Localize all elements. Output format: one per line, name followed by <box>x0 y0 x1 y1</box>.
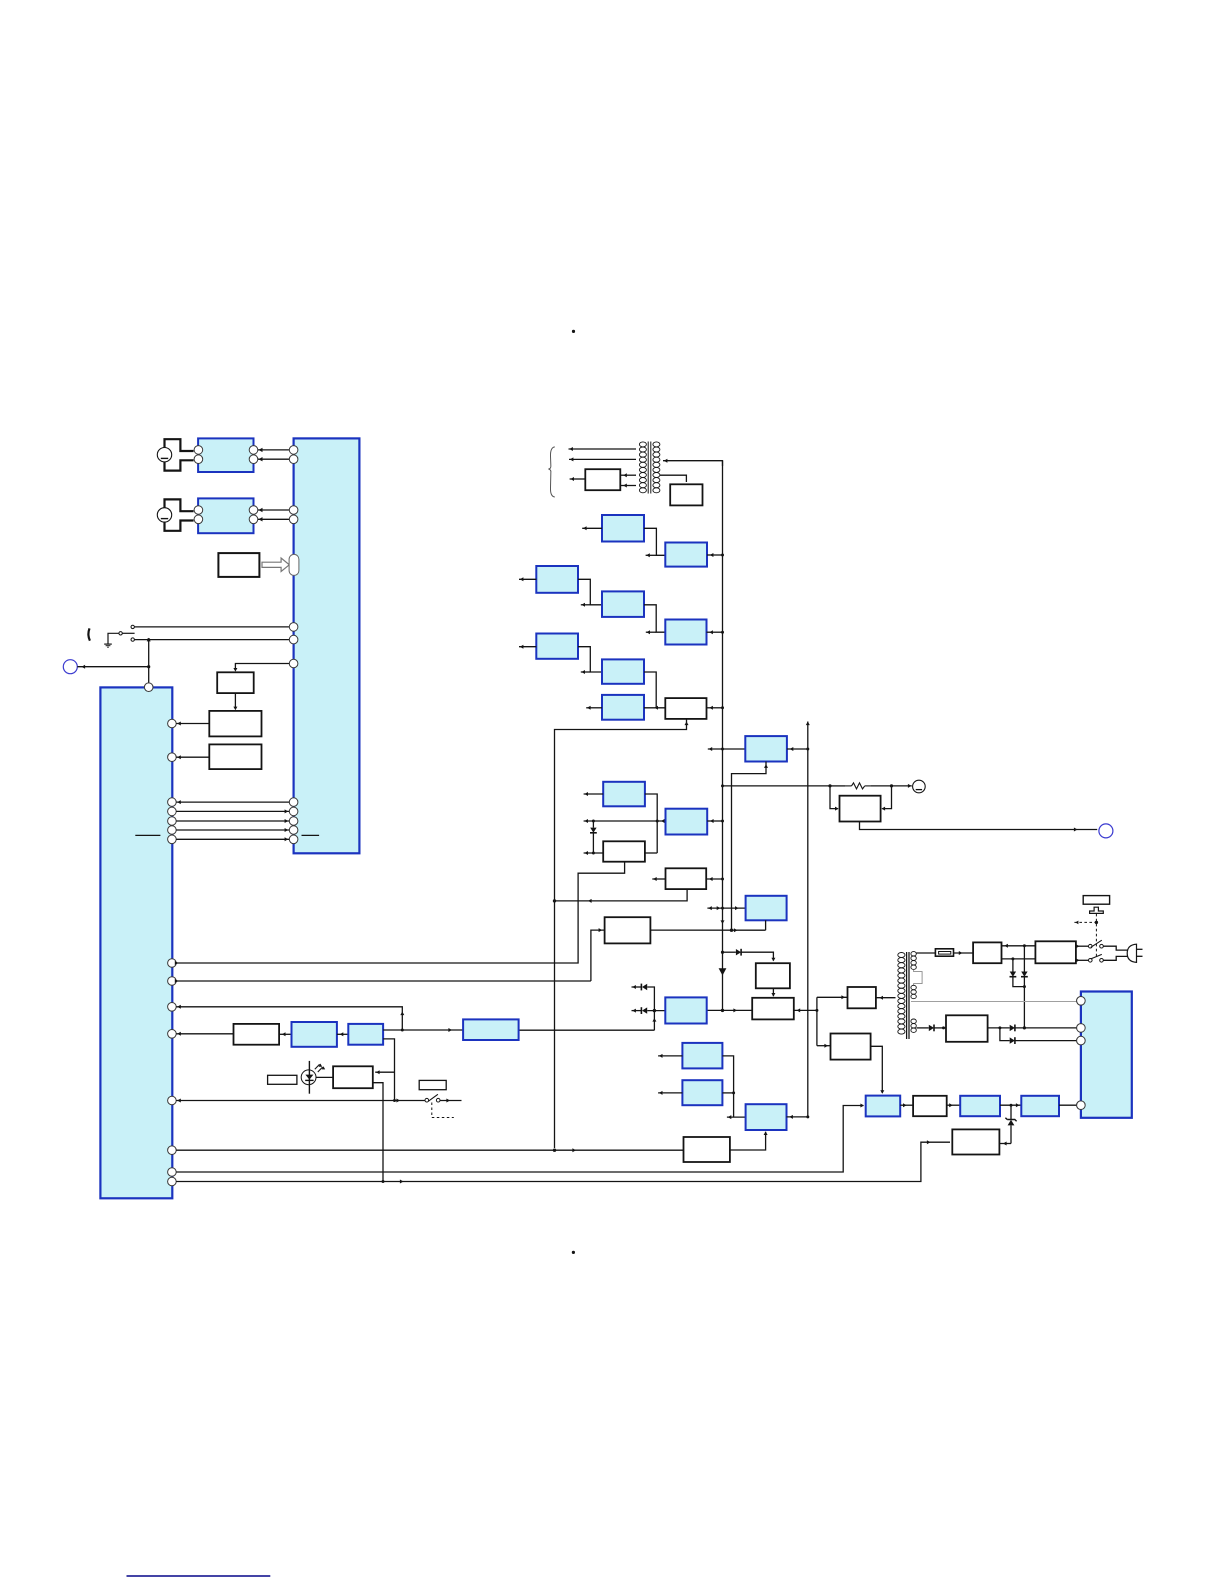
footer link line <box>127 1575 271 1577</box>
wire D2 to node <box>647 987 656 1030</box>
wire N bottom <box>553 889 687 903</box>
resistor R1 <box>845 783 871 789</box>
pin X2-right-2 <box>249 515 258 524</box>
box M white <box>603 841 645 861</box>
wire A3 out-left <box>519 577 536 581</box>
pin U2-10 <box>168 1177 177 1186</box>
pin U2-bus-3 <box>168 817 177 826</box>
wire A9 bottom feedback <box>555 719 689 1148</box>
wire Y11 to Z12 <box>871 1046 885 1094</box>
box B2 <box>217 672 254 693</box>
wire J1 to node <box>77 665 150 669</box>
wire AH to AJ <box>383 1028 463 1032</box>
pin U1-4 <box>289 515 298 524</box>
pin U2-top <box>144 683 153 692</box>
wire T1 to B5 line1 <box>620 473 636 477</box>
pin U3-3 overlay <box>1077 1036 1086 1045</box>
wire AG to AF <box>279 1032 291 1036</box>
pin U1-bus-4 <box>289 826 298 835</box>
box L cyan <box>666 809 708 835</box>
wire LED to AI <box>316 1076 333 1078</box>
pin U1-bus-1 <box>289 798 298 807</box>
wire U1 to B2 <box>233 664 289 672</box>
wire V8 to W9 <box>771 988 775 996</box>
diode D3 <box>641 1007 647 1014</box>
wire A7 to node H <box>644 672 656 708</box>
box AC cyan <box>682 1080 722 1105</box>
wire X1 to U1 line 1 <box>258 448 290 452</box>
wire pin4 to AF <box>176 1032 233 1036</box>
transformer T2 primary seg1 <box>911 952 916 970</box>
wire SW0 to ground <box>108 633 119 644</box>
box AH cyan <box>348 1024 383 1045</box>
pin X2-right-1 <box>249 506 258 515</box>
box A3 cyan <box>536 566 578 593</box>
resistor block RL <box>268 1075 297 1084</box>
gray wire T2 to U3 <box>911 1001 1077 1003</box>
registration dot top <box>572 330 575 333</box>
bus wire 5 <box>176 837 289 841</box>
wire into M <box>584 851 604 855</box>
box AF white <box>234 1024 280 1045</box>
box A8 cyan <box>602 695 644 720</box>
wire AA to W9 <box>707 1008 753 1012</box>
pin X1-left-2 <box>194 455 203 464</box>
pin X1-left-1 <box>194 446 203 455</box>
wire B5 out-left <box>570 477 586 481</box>
pin U1-bus-2 <box>289 807 298 816</box>
box Y11 white <box>831 1034 871 1060</box>
pin U3-2 overlay <box>1077 1024 1086 1033</box>
wire trunk to R row <box>721 784 832 787</box>
wire B4 to U2 <box>176 755 209 759</box>
box A1 cyan <box>602 515 644 542</box>
wire to X10 <box>817 995 848 999</box>
pin U1-5 <box>289 623 298 632</box>
pin U1-2 <box>289 455 298 464</box>
zener ZD1 <box>1005 1105 1016 1143</box>
wire lower diode row <box>1000 1028 1010 1041</box>
antenna stroke <box>88 628 90 640</box>
wire into L <box>584 819 666 823</box>
label box B1 <box>218 553 259 577</box>
trunk A mid arrow <box>721 920 725 924</box>
key label box <box>1083 896 1109 905</box>
pin U2-bus-1 <box>168 798 177 807</box>
box B3 <box>209 711 261 737</box>
wire A4 to A5 <box>644 605 665 634</box>
pin U3-3 <box>1077 1036 1086 1045</box>
pin U1-bus-3 <box>289 817 298 826</box>
switch SW3 <box>425 1094 440 1102</box>
wire B2 to B3 <box>233 693 237 710</box>
wire J5 to trunkC <box>787 747 809 751</box>
box T7 white <box>605 917 651 943</box>
wire fuse to R14 <box>954 951 974 955</box>
box W9 white <box>752 998 794 1020</box>
box B5 <box>585 469 620 490</box>
box A5 cyan <box>665 620 706 645</box>
wire AH to AG <box>337 1032 348 1036</box>
wire node down to U2 <box>148 640 150 683</box>
switch contact C2 <box>131 638 134 641</box>
box R14 white <box>973 942 1001 963</box>
wire L to trunk <box>707 819 724 823</box>
pin U2-6 <box>168 1030 177 1039</box>
wire R14 to Q15 top <box>1002 944 1036 948</box>
box A9 white <box>665 698 706 719</box>
wire T1 to B6 <box>660 475 686 482</box>
mains switch SW1 <box>1076 940 1103 948</box>
switch contact C1 <box>131 625 134 628</box>
box Q15 white <box>1035 941 1076 963</box>
pin U3-1 <box>1077 997 1086 1006</box>
box Z13 cyan <box>866 1096 901 1117</box>
diode D6 <box>929 1025 934 1032</box>
block arrow into U1 <box>262 558 289 572</box>
bus wire 2 <box>176 809 289 813</box>
wire T1 to B5 line2 <box>620 484 636 488</box>
wire AM to U3 <box>1059 1104 1077 1106</box>
diode D4 <box>1010 959 1025 987</box>
wire A8 to A9 <box>644 706 665 710</box>
transformer T1 core <box>648 442 651 494</box>
wire T2 to fuse <box>916 952 935 954</box>
wire AH lower stub <box>375 1039 394 1101</box>
box J5 cyan <box>745 736 787 761</box>
box A2 cyan <box>665 543 707 567</box>
pin U3-2 <box>1077 1024 1086 1033</box>
trunk A wire <box>722 461 724 1011</box>
diode D8 <box>1010 1037 1015 1044</box>
plug symbol for S1 <box>165 439 194 470</box>
wire N to trunk <box>706 877 724 881</box>
wire J5 bottom to trunkB <box>732 762 769 931</box>
wire AJ to node <box>519 1029 655 1031</box>
transformer T2 core <box>907 952 909 1039</box>
wire ZD1 to AN <box>999 1142 1011 1146</box>
wire A9 to trunk <box>707 706 725 710</box>
diode D5 <box>1021 946 1028 1028</box>
wire Z13 to AK <box>900 1103 913 1107</box>
wire into J5 left <box>708 747 746 751</box>
diode D7 <box>1010 1025 1015 1032</box>
wire AI lower out <box>373 1083 383 1182</box>
trunk C wire <box>806 722 810 1117</box>
wire pin2 long <box>175 979 591 983</box>
box B4 <box>209 744 261 769</box>
wire trunk to D1 <box>721 951 736 954</box>
box K cyan <box>603 782 645 807</box>
test point TP1 <box>913 780 926 793</box>
wire R row cont <box>830 784 912 788</box>
plug symbol for S2 <box>165 499 194 530</box>
AC plug P1 <box>1127 944 1142 962</box>
vertical to X10 <box>816 997 818 1045</box>
fuse F1 <box>935 949 953 956</box>
pin X2-left-1 <box>194 506 203 515</box>
wire C1 to U1 <box>135 626 290 628</box>
wire A1 to A2 <box>644 528 665 557</box>
pin U2-7 <box>168 1096 177 1105</box>
box B6 <box>670 484 702 505</box>
wire pin2 to T7 <box>591 928 605 981</box>
big block U1 <box>294 438 360 853</box>
pin U2-9 <box>168 1168 177 1177</box>
big block U3 <box>1081 992 1132 1118</box>
wire A6 to A7 <box>578 647 602 674</box>
wire P1 to J2 <box>860 822 1098 832</box>
box AM cyan <box>1021 1096 1059 1116</box>
wire M out <box>645 852 657 854</box>
box A7 cyan <box>602 659 644 683</box>
box AJ cyan <box>463 1019 518 1040</box>
box S16 white <box>946 1015 988 1042</box>
wire R14 to Q15 bot <box>1002 957 1036 960</box>
wire pin3 <box>176 1005 404 1030</box>
connector J1 <box>63 660 77 674</box>
pin U3-4 overlay <box>1077 1101 1086 1110</box>
wire lower diode stub <box>632 1009 642 1013</box>
mains switch SW2 <box>1076 954 1103 962</box>
bus wire 1 <box>176 800 289 804</box>
wire T1 to trunk <box>663 459 723 466</box>
diode D9 <box>590 821 597 853</box>
key symbol <box>1090 907 1104 913</box>
AC source S1 <box>157 448 171 462</box>
wire A3 to A4 <box>578 579 602 607</box>
box AI white <box>333 1066 373 1088</box>
box N white <box>666 868 707 889</box>
dashed link SW3 <box>432 1103 454 1118</box>
pin U2-1 <box>168 719 177 728</box>
wire X2 to U1 line 2 <box>258 517 290 521</box>
transformer T2 primary tap bracket <box>914 970 923 986</box>
box A4 cyan <box>602 591 644 617</box>
diode D1 <box>736 949 741 956</box>
pin U2-4 <box>168 977 177 986</box>
ground <box>104 644 112 647</box>
diode D2 <box>641 984 647 991</box>
box V8 white <box>756 963 790 988</box>
box AL cyan <box>960 1096 1000 1116</box>
wire to Y11 <box>817 1044 831 1048</box>
wire AC in <box>658 1091 682 1095</box>
wire pin5 <box>176 1099 425 1103</box>
transformer T2 primary seg3 <box>911 1019 916 1032</box>
pin U3-1 overlay <box>1077 997 1086 1006</box>
pin U1-6 <box>289 635 298 644</box>
label box SW3 <box>419 1080 446 1089</box>
box AK white <box>913 1096 947 1116</box>
box AD cyan <box>746 1104 787 1130</box>
wire W9 right <box>794 1008 819 1012</box>
pin U2-bus-2 <box>168 807 177 816</box>
wire AD to trunkC <box>787 1115 810 1119</box>
trunk A flow arrow <box>719 968 727 975</box>
wire T2 to D6 <box>917 1027 929 1029</box>
wire pin1 long <box>175 862 625 965</box>
wire AE to AD <box>730 1131 768 1150</box>
wire D8 to U3 <box>1015 1040 1077 1042</box>
switch SW0 blade <box>122 632 134 634</box>
wire A1 out-left <box>582 526 602 530</box>
AC source S2 <box>157 508 171 522</box>
registration dot bottom <box>572 1251 575 1254</box>
box AA cyan <box>665 997 706 1023</box>
pin X1-right-2 <box>249 455 258 464</box>
big block U2 <box>100 687 172 1198</box>
wire K out <box>645 794 659 853</box>
pin X2-left-2 <box>194 515 203 524</box>
wire X2 to U1 line 1 <box>258 508 290 512</box>
box AG cyan <box>292 1022 337 1047</box>
box AN white <box>952 1129 999 1154</box>
input block X1 <box>198 438 253 472</box>
wire T1 sec line2 <box>569 457 636 461</box>
wire A2 to trunk <box>707 553 724 557</box>
tick mark right <box>302 834 320 836</box>
pin U3-4 <box>1077 1101 1086 1110</box>
wire into AD <box>727 1115 746 1119</box>
bus wire 4 <box>176 828 289 832</box>
pin U2-bus-5 <box>168 835 177 844</box>
wire C2 to U1 <box>135 638 290 642</box>
wire upper diode stub <box>632 985 642 989</box>
brace <box>548 447 554 497</box>
wire D7 to U3 <box>1015 1026 1077 1029</box>
wire D3 to AA <box>647 1010 665 1012</box>
wire pin8 <box>176 1140 950 1183</box>
pill connector on U1 edge <box>289 554 299 575</box>
wire AB AC merge <box>722 1056 735 1117</box>
wire T1 sec line1 <box>569 447 637 451</box>
wire X10 to T2 <box>876 996 896 1000</box>
wire pin7 <box>176 1104 864 1173</box>
pin U1-7 <box>289 659 298 668</box>
transformer T2 secondary coil <box>898 953 905 1035</box>
wire K in <box>584 792 604 796</box>
box AB cyan <box>682 1043 722 1069</box>
pin U1-3 <box>289 506 298 515</box>
wire AB in <box>658 1054 682 1058</box>
pin U2-8 <box>168 1146 177 1155</box>
wire S16 out <box>988 1026 1010 1029</box>
pin U2-3 <box>168 959 177 968</box>
wire AL to AM <box>1000 1103 1021 1107</box>
box A6 cyan <box>536 634 578 659</box>
wire AK to AL <box>947 1103 961 1107</box>
wire SW2 to plug <box>1103 956 1128 960</box>
box X10 white <box>848 987 876 1008</box>
wire T7 to O6 <box>650 928 765 932</box>
switch link dashed <box>1074 914 1098 957</box>
transformer T1 primary coil <box>639 442 646 493</box>
pin U2-5 <box>168 1003 177 1012</box>
wire D1 to V8 <box>741 952 775 961</box>
pin U2-2 <box>168 753 177 762</box>
connector J2 <box>1099 824 1113 838</box>
wire into O6 left <box>707 906 745 910</box>
LED DL1 <box>301 1061 325 1094</box>
input block X2 <box>198 498 253 533</box>
transformer T2 primary seg2 <box>911 985 916 998</box>
bus wire 3 <box>176 819 289 823</box>
wire pin6 <box>176 1148 683 1152</box>
box AE white <box>684 1137 730 1162</box>
wire after SW3 <box>440 1099 462 1103</box>
wire A6 out-left <box>519 645 536 649</box>
pin U1-1 <box>289 446 298 455</box>
box O6 cyan <box>746 896 787 921</box>
wire O6 bottom <box>765 920 767 930</box>
pin U2-bus-4 <box>168 826 177 835</box>
wire A5 to trunk <box>707 630 725 634</box>
wire SW1 to plug <box>1103 946 1128 950</box>
wire into P left <box>830 786 839 811</box>
wire D6 to S16 <box>934 1026 946 1029</box>
box P1 white <box>840 796 881 822</box>
tick mark left <box>135 834 160 836</box>
switch SW0 pole <box>119 632 122 635</box>
wire X1 to U1 line 2 <box>258 457 290 461</box>
wire B3 to U2 <box>176 722 209 726</box>
wire into P right <box>882 786 892 811</box>
transformer T1 secondary coil <box>653 442 660 493</box>
pin U1-bus-5 <box>289 835 298 844</box>
pin X1-right-1 <box>249 446 258 455</box>
wire A8 in-left <box>586 706 602 710</box>
wire N in <box>652 877 665 881</box>
